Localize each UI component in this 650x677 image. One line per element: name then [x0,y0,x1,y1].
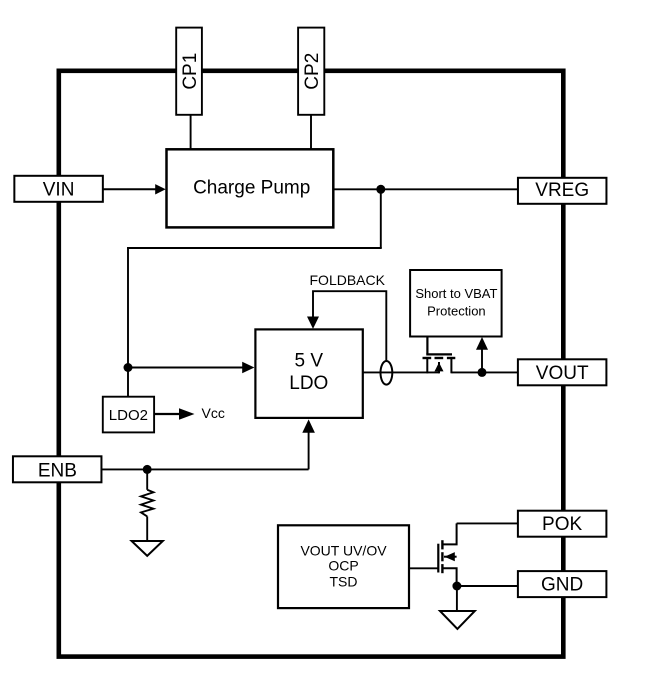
Q1 source lead [426,358,428,373]
wire left down to LDO input node [127,247,129,367]
wire Charge Pump to VREG [334,188,518,190]
block 5V LDO [255,329,362,418]
Q2 source lead [442,568,456,586]
wire ENB to LDO enable [102,468,309,470]
pin box GND [518,571,607,597]
resistor R1 pulldown [141,469,153,541]
Q1 drain lead [450,358,452,373]
arrow enable into LDO bottom [302,419,315,432]
block Short to VBAT Protection [410,270,502,337]
node LDO input junction [124,363,133,372]
Q1 channel dash 3 [447,357,455,359]
pin box POK [518,511,607,537]
wire pass FET to VOUT [451,371,518,373]
ground symbol at R1 [132,541,163,556]
svg-text:Protection: Protection [427,304,486,319]
svg-text:5 V: 5 V [295,350,324,371]
node ENB junction [143,465,152,474]
wire 5V LDO output to pass FET [363,371,440,373]
wire junction down to ground [456,586,458,611]
transistor Q1 pass FET [423,337,456,374]
wire CP1 to Charge Pump [190,115,192,150]
svg-text:TSD: TSD [330,573,358,589]
svg-text:Vcc: Vcc [202,405,225,421]
wire VIN to Charge Pump [103,184,166,194]
block VOUT UV/OV OCP TSD [278,525,409,608]
ground symbol at Q2 [440,611,475,629]
arrow FOLDBACK into LDO top [307,317,319,329]
Q2 channel dash 1 [441,540,443,549]
block Charge Pump [167,149,334,227]
Q2 channel dash 2 [441,552,443,561]
Q2 channel dash 3 [441,564,443,573]
svg-text:ENB: ENB [38,460,77,481]
svg-text:LDO2: LDO2 [109,407,148,424]
svg-text:VOUT UV/OV: VOUT UV/OV [300,542,387,558]
Q1 channel dash 1 [423,357,432,359]
svg-text:CP2: CP2 [302,53,323,90]
svg-text:VREG: VREG [535,180,589,201]
node GND junction [452,582,461,591]
wire junction to 5V LDO input [128,362,254,373]
transistor Q2 POK FET [438,523,456,586]
wire junction down [380,189,382,248]
pin box VREG [518,178,607,204]
svg-text:Short to VBAT: Short to VBAT [415,286,497,301]
pin box CP1 [176,28,202,115]
pin box CP2 [298,28,324,115]
Q1 channel dash 2 [435,357,444,359]
svg-text:OCP: OCP [328,557,358,573]
wire CP2 to Charge Pump [310,115,312,150]
Q1 gate bar [426,353,452,355]
svg-text:GND: GND [541,575,583,596]
arrow into Short to VBAT Protection [476,337,488,350]
svg-text:FOLDBACK: FOLDBACK [310,272,386,288]
wire VOUT junction up to protection [481,348,483,372]
wire LDO2 to Vcc with arrow [154,408,194,419]
pin box ENB [13,456,102,482]
wire enable up into LDO [308,431,310,470]
wire UV/OV block to Q2 gate [409,567,438,569]
Q1 body lead with arrow [438,362,440,373]
svg-text:POK: POK [542,514,582,535]
pin box VOUT [518,359,607,385]
wire across to left [127,247,382,249]
current limit sense ellipse [381,361,393,385]
wire junction down to LDO2 [127,368,129,397]
wire junction to GND pin [457,585,519,587]
svg-text:VIN: VIN [43,180,75,201]
svg-text:VOUT: VOUT [536,363,589,384]
node VOUT junction [478,368,487,377]
block LDO2 [103,397,154,433]
wire FOLDBACK loop [313,291,386,361]
svg-text:Charge Pump: Charge Pump [193,178,310,199]
Q2 body lead with arrow [444,556,457,558]
svg-text:CP1: CP1 [180,53,201,90]
IC boundary [59,71,564,657]
svg-text:LDO: LDO [289,373,328,394]
Q1 gate lead [426,337,428,355]
wire Q2 drain to POK [457,522,519,524]
node VREG junction [376,185,385,194]
pin box VIN [14,176,103,202]
Q2 gate bar [437,544,439,573]
Q2 drain lead [442,523,456,544]
